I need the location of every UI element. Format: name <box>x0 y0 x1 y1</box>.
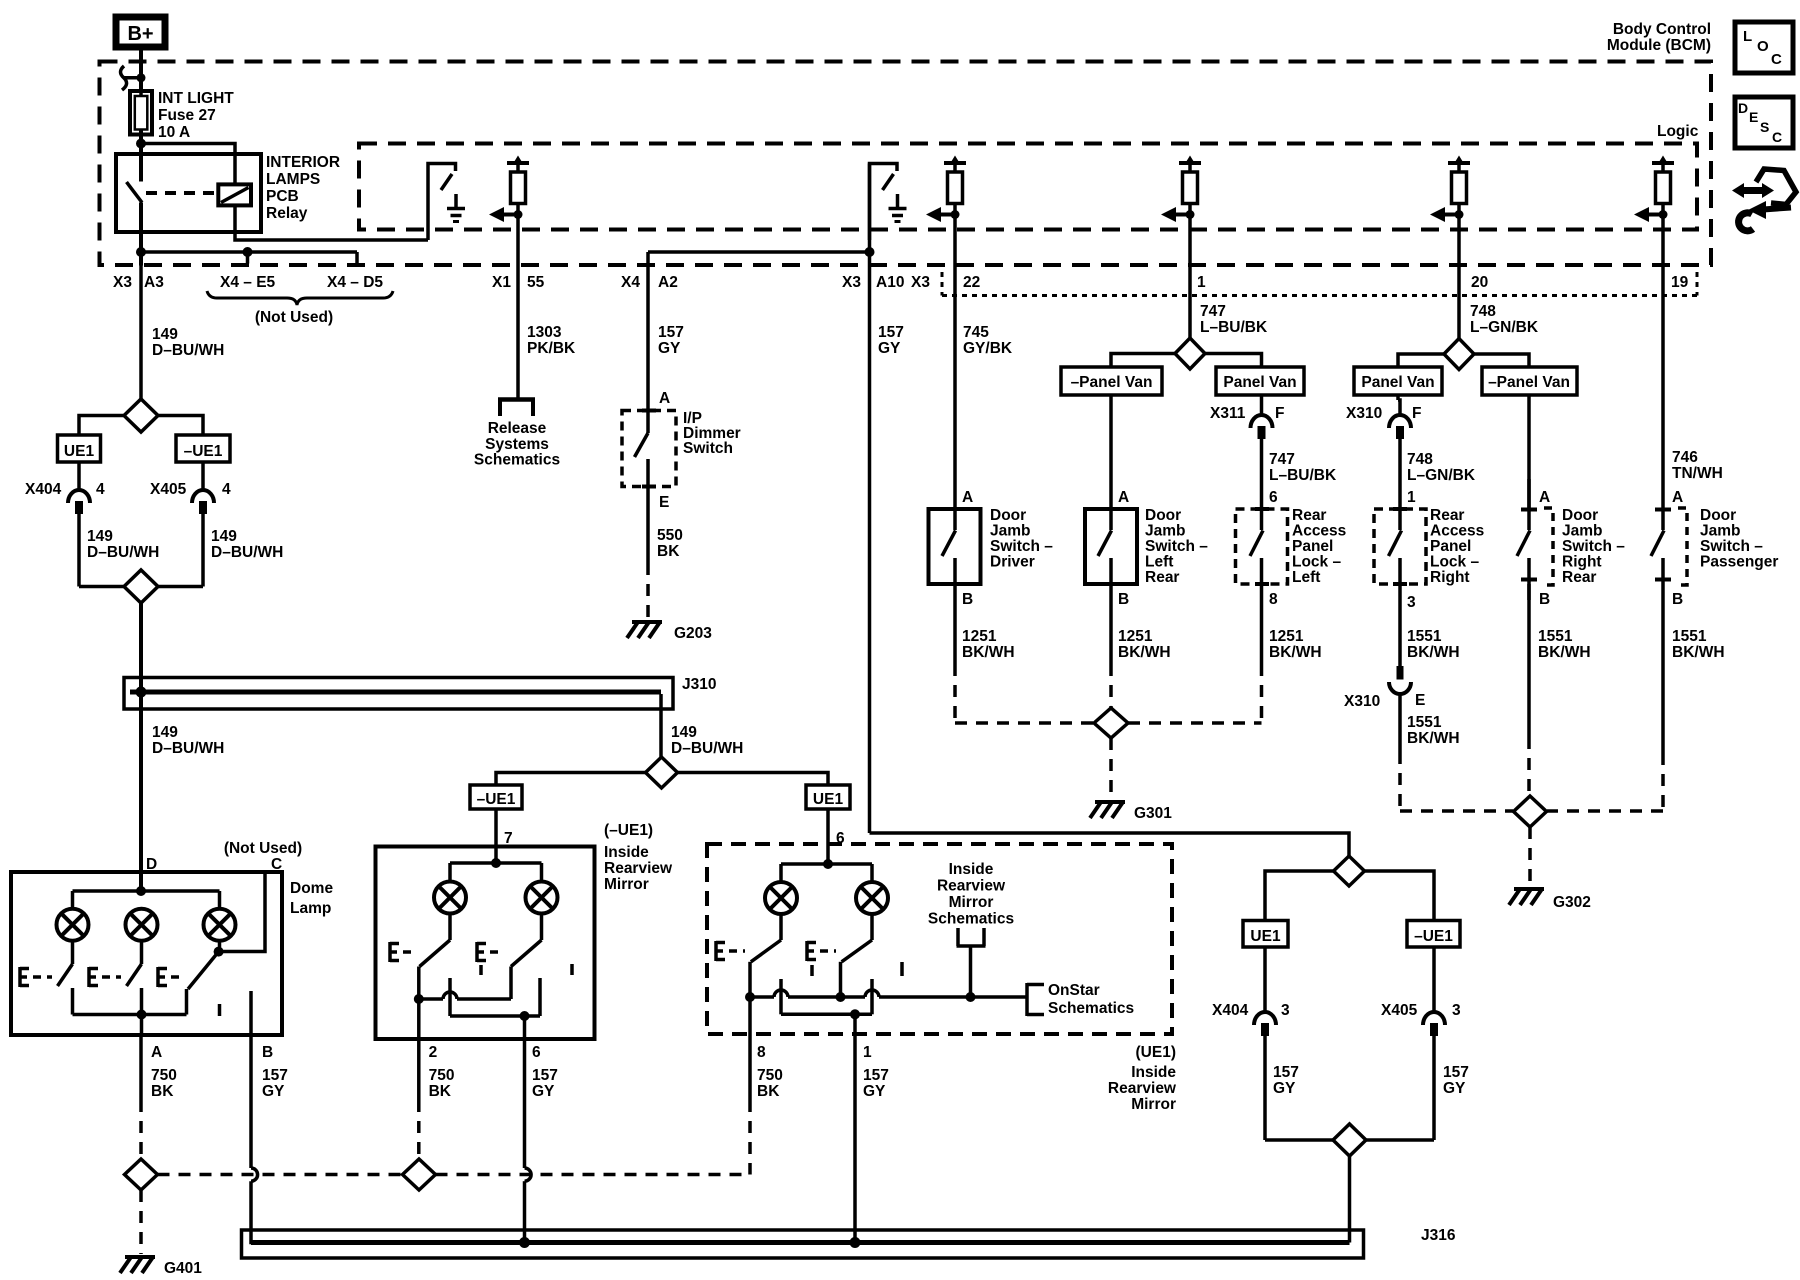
svg-text:Rearview: Rearview <box>1108 1080 1177 1097</box>
splice pack J316 <box>242 1230 1364 1258</box>
wire to Panel Van <box>1205 354 1262 368</box>
svg-text:GY: GY <box>1443 1080 1466 1097</box>
svg-text:Switch –: Switch – <box>1562 538 1625 555</box>
dashed wire left rear to splice <box>1109 664 1113 708</box>
ground G203 <box>632 620 662 624</box>
Door Jamb Switch - Right Rear dashed bracket <box>1521 508 1537 512</box>
svg-text:–Panel Van: –Panel Van <box>1071 374 1153 391</box>
BCM output driver pin 1 <box>1179 161 1201 165</box>
svg-text:4: 4 <box>96 481 105 498</box>
wire 157 GY right left branch <box>1263 1035 1267 1140</box>
dome lamp bulb 1 <box>57 909 89 941</box>
svg-text:1551: 1551 <box>1407 714 1442 731</box>
ground distribution dashed line <box>158 1173 403 1177</box>
wire 1551 BK/WH passenger <box>1661 584 1665 753</box>
wire 157 GY to dimmer switch <box>646 252 650 411</box>
UE1 option box right <box>1243 921 1288 948</box>
svg-text:A: A <box>1118 489 1129 506</box>
mirror 2 linkage dash b <box>900 962 904 976</box>
svg-text:22: 22 <box>963 274 980 291</box>
dashed wire driver to splice <box>953 664 957 723</box>
splice diamond G401 <box>125 1159 158 1190</box>
LOC reference box <box>1735 22 1793 73</box>
svg-text:1: 1 <box>863 1044 872 1061</box>
I/P Dimmer Switch dashed box <box>622 411 676 487</box>
svg-text:20: 20 <box>1471 274 1488 291</box>
wire 149 D-BU/WH below X404 <box>77 513 81 587</box>
mirror 2 switch right <box>870 914 874 940</box>
mirror 2 switch left <box>779 914 783 940</box>
svg-text:BK/WH: BK/WH <box>962 644 1015 661</box>
off-page fork to Release Systems Schematics <box>516 216 520 400</box>
svg-text:8: 8 <box>1269 591 1278 608</box>
wire J310 tap down <box>659 694 663 757</box>
svg-text:1551: 1551 <box>1672 628 1707 645</box>
wire 747 L-BU/BK to lock left <box>1260 438 1264 509</box>
distribution dashed continues <box>436 1173 751 1177</box>
svg-text:Right: Right <box>1562 554 1602 571</box>
wire pin 7 mirror 1 <box>494 809 498 847</box>
Panel Van box (748) <box>1354 367 1442 395</box>
svg-text:3: 3 <box>1407 594 1416 611</box>
svg-text:1251: 1251 <box>1118 628 1153 645</box>
svg-text:X4 – E5: X4 – E5 <box>220 274 276 291</box>
dome actuator E 3 <box>156 967 160 987</box>
svg-text:UE1: UE1 <box>64 443 95 460</box>
dashed wire to G203 <box>646 563 650 619</box>
svg-text:Lock –: Lock – <box>1292 554 1341 571</box>
svg-text:B+: B+ <box>127 23 153 45</box>
Panel Van box (747) <box>1216 367 1304 395</box>
brace (Not Used) <box>207 291 393 305</box>
svg-text:6: 6 <box>532 1044 541 1061</box>
svg-text:BK/WH: BK/WH <box>1118 644 1171 661</box>
dome pin B wire to J316 <box>249 1035 253 1168</box>
mirror 2 pin 8 wire <box>748 997 752 1034</box>
ground G302 <box>1514 887 1544 891</box>
mirror 1 lower bus <box>450 1014 540 1018</box>
wire to -Panel Van (748) <box>1474 354 1529 367</box>
Door Jamb Switch - Passenger dashed bracket <box>1655 508 1671 512</box>
fuse INT LIGHT Fuse 27 10 A <box>130 91 152 135</box>
wire B+ down to fuse <box>139 47 143 92</box>
wire 748 L-GN/BK from pin 20 <box>1457 216 1461 339</box>
svg-text:INT LIGHT: INT LIGHT <box>158 90 234 107</box>
svg-text:Fuse 27: Fuse 27 <box>158 107 216 124</box>
wire to -UE1 (mirror 1) <box>496 773 646 786</box>
svg-text:Door: Door <box>990 507 1026 524</box>
svg-text:1: 1 <box>1407 489 1416 506</box>
wire to UE1 (mirror 2) <box>678 773 829 786</box>
svg-text:OnStar: OnStar <box>1048 982 1100 999</box>
BCM output driver X1-55 <box>507 161 529 165</box>
svg-text:C: C <box>1772 129 1782 145</box>
svg-text:(UE1): (UE1) <box>1136 1044 1176 1061</box>
svg-text:D–BU/WH: D–BU/WH <box>87 544 159 561</box>
Dome Lamp box <box>11 872 282 1035</box>
wire -UE1 to X405 <box>201 462 205 490</box>
splice diamond right pair top <box>1334 856 1365 886</box>
svg-text:G203: G203 <box>674 625 712 642</box>
svg-text:8: 8 <box>757 1044 766 1061</box>
svg-text:157: 157 <box>532 1067 558 1084</box>
wire fuse down into relay <box>139 144 143 182</box>
svg-text:D–BU/WH: D–BU/WH <box>671 740 743 757</box>
svg-text:1303: 1303 <box>527 324 562 341</box>
dashed drop to G302 <box>1528 827 1532 886</box>
wire across to right lamp group <box>870 833 1350 856</box>
svg-text:–UE1: –UE1 <box>1414 928 1453 945</box>
svg-text:X4 – D5: X4 – D5 <box>327 274 383 291</box>
wire UE1 to X404 pin 3 <box>1263 947 1267 1012</box>
-UE1 option box <box>176 435 230 462</box>
mirror 1 pin 6 wire <box>523 1016 527 1039</box>
mirror 2 actuator 2 <box>805 941 809 961</box>
svg-text:Systems: Systems <box>485 436 549 453</box>
junction relay output branch <box>136 247 146 257</box>
mirror 2 pin 8 dashed wire <box>748 1034 752 1100</box>
svg-text:A: A <box>1539 489 1550 506</box>
-Panel Van box (right) <box>1482 367 1577 395</box>
svg-text:GY: GY <box>863 1083 886 1100</box>
wire 748 L-GN/BK to lock right <box>1398 438 1402 509</box>
svg-text:748: 748 <box>1407 451 1433 468</box>
wire branch to X4-E5 / X4-D5 (not used) <box>141 250 357 254</box>
svg-text:Switch –: Switch – <box>1700 538 1763 555</box>
wire relay coil return to logic ground switch <box>235 205 428 240</box>
door jamb left rear blade <box>1109 509 1113 530</box>
wire 1551 BK/WH below X310 E <box>1398 694 1402 752</box>
splice diamond rejoin <box>79 585 124 589</box>
svg-text:157: 157 <box>658 324 684 341</box>
wire -UE1 to X405 pin 3 <box>1432 947 1436 1012</box>
svg-text:746: 746 <box>1672 449 1698 466</box>
mirror 2 common bus to OnStar <box>745 992 755 1002</box>
svg-text:BK: BK <box>429 1083 452 1100</box>
svg-text:BK/WH: BK/WH <box>1672 644 1725 661</box>
svg-text:J310: J310 <box>682 676 716 693</box>
svg-text:747: 747 <box>1269 451 1295 468</box>
splice diamond mirror 1 pin 2 <box>403 1159 436 1190</box>
wire fuse to relay coil branch <box>141 144 235 185</box>
wire 550 BK <box>646 487 650 564</box>
ground G401 <box>125 1255 155 1259</box>
BCM outer dashed box <box>100 62 1712 266</box>
mirror 1 pin 2 dashed wire <box>417 1039 421 1100</box>
svg-text:C: C <box>1771 51 1782 68</box>
mirror 1 pin 2 wire <box>417 999 421 1039</box>
wire 157 GY right right branch <box>1432 1035 1436 1140</box>
svg-text:Dome: Dome <box>290 880 333 897</box>
svg-text:Door: Door <box>1562 507 1598 524</box>
splice diamond 747 <box>1175 338 1205 369</box>
dome switch 1 <box>71 941 75 964</box>
dome lamp bulb 3 <box>204 909 236 941</box>
svg-text:–UE1: –UE1 <box>184 443 223 460</box>
svg-text:149: 149 <box>87 528 113 545</box>
rear access lock left blade <box>1260 509 1264 530</box>
svg-text:J316: J316 <box>1421 1227 1456 1244</box>
svg-text:Panel Van: Panel Van <box>1361 374 1434 391</box>
svg-text:L–GN/BK: L–GN/BK <box>1407 467 1476 484</box>
svg-text:1251: 1251 <box>962 628 997 645</box>
svg-text:Jamb: Jamb <box>1562 523 1603 540</box>
svg-text:10 A: 10 A <box>158 124 190 141</box>
mirror 1 actuator 2 <box>475 942 479 962</box>
svg-text:149: 149 <box>211 528 237 545</box>
-UE1 option box mirror 1 <box>470 785 522 809</box>
wire 149 D-BU/WH below X405 <box>201 513 205 587</box>
svg-text:Logic: Logic <box>1657 123 1699 140</box>
svg-text:D–BU/WH: D–BU/WH <box>152 342 224 359</box>
relay switch output wire <box>139 203 143 266</box>
svg-text:Inside: Inside <box>604 844 649 861</box>
svg-text:750: 750 <box>429 1067 455 1084</box>
svg-text:X1: X1 <box>492 274 511 291</box>
svg-text:Rear: Rear <box>1145 569 1179 586</box>
wire 745 GY/BK <box>953 216 957 509</box>
svg-text:G301: G301 <box>1134 805 1172 822</box>
dome switch 2 <box>140 941 144 964</box>
svg-text:X3: X3 <box>911 274 930 291</box>
svg-text:Lock –: Lock – <box>1430 554 1479 571</box>
svg-text:3: 3 <box>1281 1002 1290 1019</box>
svg-text:BK: BK <box>757 1083 780 1100</box>
svg-text:Relay: Relay <box>266 205 308 222</box>
svg-text:Driver: Driver <box>990 554 1035 571</box>
svg-text:19: 19 <box>1671 274 1689 291</box>
svg-text:55: 55 <box>527 274 545 291</box>
svg-text:X3: X3 <box>113 274 132 291</box>
splice diamond 748 <box>1444 339 1474 370</box>
Inside Rearview Mirror dashed box 2 <box>707 844 1172 1034</box>
door jamb driver blade <box>953 509 957 530</box>
dome ground bus <box>73 1013 187 1017</box>
wire 1251 BK/WH left rear <box>1109 584 1113 664</box>
svg-text:TN/WH: TN/WH <box>1672 465 1723 482</box>
svg-text:Schematics: Schematics <box>1048 1000 1134 1017</box>
svg-text:G401: G401 <box>164 1260 202 1277</box>
svg-text:A: A <box>659 390 670 407</box>
mirror 2 linkage dash a <box>810 965 814 976</box>
mirror 2 contact stubs <box>779 979 783 1014</box>
-Panel Van box (left) <box>1061 367 1162 395</box>
mirror 2 bulb left <box>765 882 797 914</box>
svg-text:S: S <box>1760 119 1769 135</box>
svg-text:E: E <box>1415 692 1425 709</box>
svg-text:INTERIOR: INTERIOR <box>266 154 340 171</box>
svg-text:PCB: PCB <box>266 188 299 205</box>
mirror 2 pin 1 wire <box>853 1014 857 1034</box>
wire 149 D-BU/WH from X3 A3 <box>139 266 143 401</box>
svg-text:–Panel Van: –Panel Van <box>1488 374 1570 391</box>
svg-text:Passenger: Passenger <box>1700 554 1778 571</box>
svg-text:BK/WH: BK/WH <box>1407 730 1460 747</box>
svg-text:X404: X404 <box>25 481 62 498</box>
svg-text:X405: X405 <box>1381 1002 1418 1019</box>
mirror 1 switch right <box>540 914 544 940</box>
mirror 2 pin 1 wire to J316 <box>853 1034 857 1243</box>
wire to J316 <box>1348 1156 1352 1243</box>
svg-text:Schematics: Schematics <box>474 452 560 469</box>
svg-text:Switch: Switch <box>683 440 733 457</box>
Inside Rearview Mirror box 1 <box>376 847 595 1040</box>
DESC reference box <box>1735 97 1793 148</box>
wire 1551 BK/WH lock right <box>1398 584 1402 666</box>
svg-text:F: F <box>1275 405 1284 422</box>
X3 connector dotted bracket <box>941 272 944 296</box>
wire pin 6 mirror 2 <box>826 809 830 844</box>
OnStar Schematics reference <box>1025 983 1029 1016</box>
UE1 option box mirror 2 <box>806 785 850 809</box>
logic ground switch 2 <box>870 164 898 241</box>
Door Jamb Switch - Driver box <box>929 509 981 584</box>
dome actuator E 2 <box>87 967 91 987</box>
svg-text:3: 3 <box>1452 1002 1461 1019</box>
svg-text:2: 2 <box>429 1044 438 1061</box>
mirror 1 feed bus <box>494 847 498 864</box>
svg-text:A: A <box>1672 489 1683 506</box>
wire 1251 BK/WH lock left <box>1260 584 1264 664</box>
svg-text:Access: Access <box>1292 523 1346 540</box>
mirror 1 bulb left <box>434 882 466 914</box>
svg-text:LAMPS: LAMPS <box>266 171 320 188</box>
wire -Panel Van to door jamb left rear <box>1109 395 1113 509</box>
svg-text:149: 149 <box>152 326 178 343</box>
mirror 1 linkage dash b <box>570 964 574 975</box>
svg-text:748: 748 <box>1470 303 1496 320</box>
svg-text:E: E <box>659 494 669 511</box>
svg-text:Jamb: Jamb <box>990 523 1031 540</box>
svg-text:149: 149 <box>671 724 697 741</box>
svg-text:B: B <box>1118 591 1129 608</box>
svg-text:4: 4 <box>222 481 231 498</box>
svg-text:X3: X3 <box>842 274 861 291</box>
dashed wire lock right to G302 splice <box>1398 752 1402 811</box>
pin B stub dome <box>249 991 253 1035</box>
svg-text:6: 6 <box>1269 489 1278 506</box>
-UE1 option box right <box>1407 921 1460 948</box>
svg-text:E: E <box>1749 109 1758 125</box>
splice diamond G301 <box>1094 708 1128 738</box>
svg-text:GY: GY <box>658 340 681 357</box>
svg-text:PK/BK: PK/BK <box>527 340 576 357</box>
junction below fuse <box>136 139 146 149</box>
rear access lock right blade <box>1398 509 1402 530</box>
svg-text:GY: GY <box>1273 1080 1296 1097</box>
mirror 1 switch left <box>448 914 452 940</box>
svg-text:157: 157 <box>1273 1064 1299 1081</box>
svg-text:Inside: Inside <box>949 861 994 878</box>
wire -Panel Van to door jamb right rear <box>1527 395 1531 509</box>
svg-text:750: 750 <box>757 1067 783 1084</box>
svg-text:L: L <box>1743 28 1752 45</box>
logic ground switch 1 <box>428 164 456 241</box>
svg-text:Mirror: Mirror <box>604 876 649 893</box>
svg-text:Jamb: Jamb <box>1700 523 1741 540</box>
dome linkage dash <box>218 1004 222 1016</box>
svg-text:BK/WH: BK/WH <box>1269 644 1322 661</box>
svg-text:D: D <box>1738 100 1748 116</box>
dimmer switch blade <box>646 411 650 434</box>
splice diamond mirror feeds <box>646 757 678 788</box>
svg-text:G302: G302 <box>1553 894 1591 911</box>
svg-text:A: A <box>962 489 973 506</box>
svg-text:157: 157 <box>878 324 904 341</box>
wire 747 L-BU/BK from pin 1 <box>1188 216 1192 339</box>
svg-text:UE1: UE1 <box>1250 928 1281 945</box>
dome actuator E 1 <box>18 967 22 987</box>
door jamb right rear blade <box>1527 479 1531 530</box>
svg-text:Inside: Inside <box>1131 1064 1176 1081</box>
svg-text:Switch –: Switch – <box>990 538 1053 555</box>
svg-text:Lamp: Lamp <box>290 900 331 917</box>
svg-text:GY/BK: GY/BK <box>963 340 1013 357</box>
svg-text:Panel: Panel <box>1430 538 1471 555</box>
svg-text:1551: 1551 <box>1538 628 1573 645</box>
mirror 1 common bus <box>414 994 424 1004</box>
ground splice dashed line G301 <box>955 721 1094 725</box>
mirror 2 feed bus <box>826 844 830 864</box>
svg-text:Panel Van: Panel Van <box>1223 374 1296 391</box>
wire to -UE1 right <box>1365 871 1435 921</box>
svg-text:O: O <box>1757 38 1769 55</box>
svg-text:B: B <box>1539 591 1550 608</box>
fuse clip curl <box>121 66 127 90</box>
svg-text:X405: X405 <box>150 481 187 498</box>
svg-text:Switch –: Switch – <box>1145 538 1208 555</box>
svg-text:F: F <box>1412 405 1421 422</box>
svg-text:D–BU/WH: D–BU/WH <box>211 544 283 561</box>
svg-text:Release: Release <box>488 420 547 437</box>
mirror 1 actuator 1 <box>388 942 392 962</box>
svg-text:157: 157 <box>863 1067 889 1084</box>
svg-text:747: 747 <box>1200 303 1226 320</box>
wire 1551 BK/WH right rear <box>1527 584 1531 737</box>
dashed drop to G301 <box>1109 738 1113 799</box>
svg-text:(–UE1): (–UE1) <box>604 822 653 839</box>
svg-text:A: A <box>151 1044 162 1061</box>
svg-text:L–BU/BK: L–BU/BK <box>1200 319 1268 336</box>
svg-text:D–BU/WH: D–BU/WH <box>152 740 224 757</box>
wire to -Panel Van <box>1111 354 1175 368</box>
svg-text:GY: GY <box>878 340 901 357</box>
svg-text:A3: A3 <box>144 274 164 291</box>
svg-text:(Not Used): (Not Used) <box>224 840 302 857</box>
dashed wire lock left to splice <box>1260 664 1264 723</box>
svg-text:Door: Door <box>1145 507 1181 524</box>
svg-text:B: B <box>262 1044 273 1061</box>
svg-text:750: 750 <box>151 1067 177 1084</box>
svg-text:A10: A10 <box>876 274 904 291</box>
svg-text:Schematics: Schematics <box>928 911 1014 928</box>
mirror 1 linkage dash a <box>479 965 483 975</box>
BCM output driver pin 20 <box>1448 161 1470 165</box>
svg-text:157: 157 <box>262 1067 288 1084</box>
wire Panel Van to X311 <box>1260 395 1264 415</box>
mirror 2 lower bus <box>781 1013 872 1017</box>
relay switch blade <box>127 182 143 203</box>
svg-text:X311: X311 <box>1210 405 1246 422</box>
svg-text:(Not Used): (Not Used) <box>255 309 333 326</box>
svg-text:Access: Access <box>1430 523 1484 540</box>
svg-text:745: 745 <box>963 324 989 341</box>
svg-text:X310: X310 <box>1344 693 1380 710</box>
svg-text:Jamb: Jamb <box>1145 523 1186 540</box>
svg-text:Left: Left <box>1292 569 1320 586</box>
svg-text:L–BU/BK: L–BU/BK <box>1269 467 1337 484</box>
wire UE1 to X404 <box>77 462 81 490</box>
